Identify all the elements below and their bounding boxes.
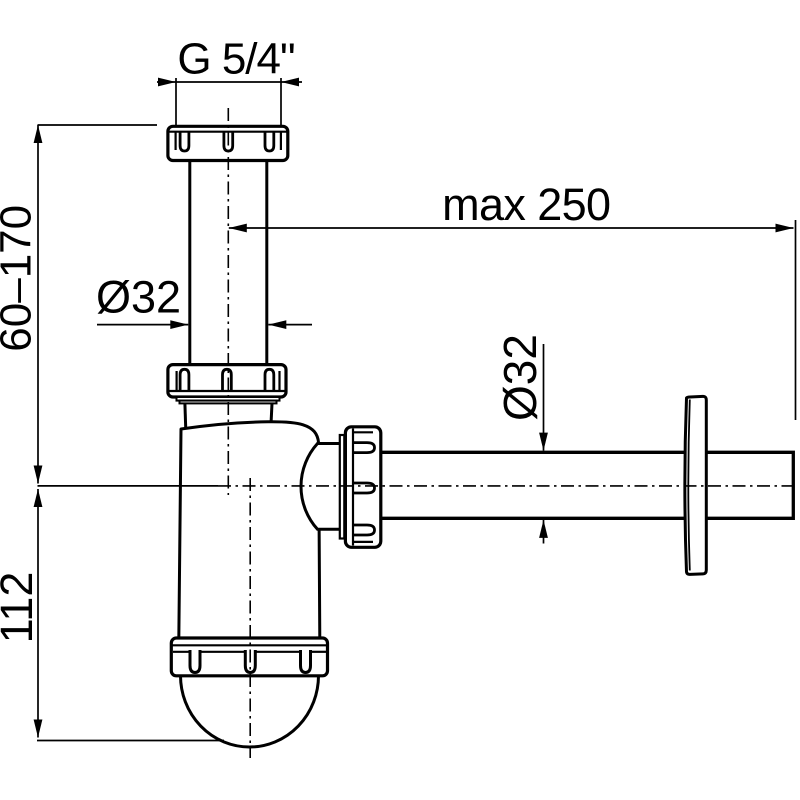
svg-text:60–170: 60–170 xyxy=(0,205,41,352)
node side port dome on body xyxy=(301,444,341,530)
body trap cup xyxy=(179,422,320,640)
node neck below nut2 xyxy=(185,403,272,427)
node centerline vertical pipe axis xyxy=(227,108,229,495)
svg-text:112: 112 xyxy=(0,572,42,644)
node centerline horizontal pipe axis xyxy=(218,485,796,487)
node wall flange rosette xyxy=(685,396,706,574)
svg-text:Ø32: Ø32 xyxy=(96,272,181,323)
dimension diameter 32 inlet xyxy=(96,272,312,330)
dimension 60-170 xyxy=(0,125,157,484)
wire vertical inlet pipe walls xyxy=(190,150,267,372)
dimension 112 xyxy=(0,486,224,741)
node centerline body axis xyxy=(249,478,251,758)
svg-text:Ø32: Ø32 xyxy=(494,334,546,421)
nut N4 side coupling nut xyxy=(345,427,380,548)
svg-text:G 5/4": G 5/4" xyxy=(177,35,294,84)
svg-text:max 250: max 250 xyxy=(442,179,610,230)
dimension max 250 xyxy=(229,179,796,420)
nut N2 coupling nut above body xyxy=(168,365,286,404)
dimension diameter 32 outlet xyxy=(494,334,548,543)
nut N3 bottom coupling nut xyxy=(171,638,327,676)
nut N1 top coupling nut xyxy=(168,126,288,160)
node dome bottom of cup xyxy=(181,676,319,748)
wire horizontal outlet pipe xyxy=(379,452,793,518)
dimension G 5/4" xyxy=(157,35,302,126)
node washer before side nut xyxy=(340,435,345,539)
